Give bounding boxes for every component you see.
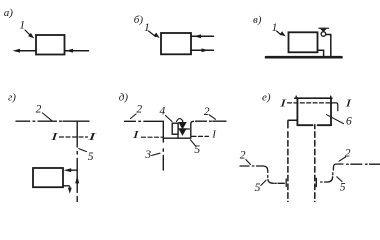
svg-text:2: 2: [240, 149, 246, 161]
svg-text:а): а): [4, 7, 14, 19]
svg-text:в): в): [253, 14, 262, 26]
svg-text:1: 1: [144, 22, 150, 34]
svg-text:I: I: [278, 97, 288, 109]
svg-text:I: I: [86, 131, 98, 143]
svg-text:2: 2: [136, 103, 142, 115]
svg-text:д): д): [119, 92, 129, 104]
svg-text:г): г): [8, 91, 16, 103]
svg-text:I: I: [131, 129, 141, 141]
svg-text:е): е): [262, 92, 271, 104]
svg-text:2: 2: [345, 148, 351, 160]
svg-text:I: I: [49, 131, 60, 143]
svg-text:2: 2: [204, 106, 210, 118]
svg-text:5: 5: [88, 151, 94, 163]
svg-text:3: 3: [144, 149, 151, 161]
svg-text:6: 6: [346, 116, 352, 128]
svg-text:5: 5: [340, 182, 346, 194]
svg-text:б): б): [134, 14, 144, 26]
svg-text:I: I: [344, 97, 353, 109]
svg-text:4: 4: [160, 105, 166, 117]
svg-text:I: I: [211, 129, 217, 141]
svg-text:5: 5: [255, 182, 261, 194]
svg-text:1: 1: [19, 19, 25, 31]
svg-text:1: 1: [272, 22, 278, 34]
svg-text:2: 2: [36, 103, 42, 115]
